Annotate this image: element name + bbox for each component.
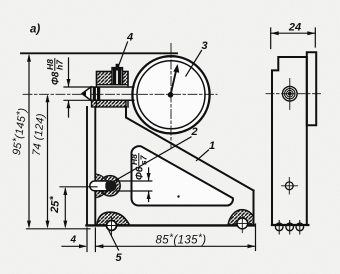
svg-text:Ф8: Ф8 <box>51 71 62 85</box>
dim 25 line <box>64 189 66 226</box>
svg-text:s7: s7 <box>139 154 149 165</box>
spindle clamp bands <box>93 87 96 100</box>
hub clamp body outline <box>97 72 129 108</box>
dim 4 extension lines <box>87 228 95 252</box>
side view bottom edge heavy <box>272 224 308 226</box>
gusset plate 1 hypotenuse <box>126 107 254 191</box>
dim 85 right extension <box>255 224 257 251</box>
dial indicator 3 outer circle <box>132 56 209 133</box>
lower boss (hole 5) hatched <box>97 212 130 225</box>
pin 2 (dark) <box>105 181 115 191</box>
spindle top edge <box>91 86 134 88</box>
dim 95 line <box>28 56 30 226</box>
dim 24 extension lines <box>271 28 316 49</box>
dim F8 line with arrows <box>68 58 70 117</box>
bottom extension line for 95/74/25 <box>27 228 91 230</box>
side bottom hole 2 <box>286 223 294 231</box>
25 extension line to hole axis <box>60 186 97 188</box>
hub bottom hatched strip <box>92 100 127 107</box>
svg-text:74 (124): 74 (124) <box>31 113 47 157</box>
dim F6 line with arrows <box>148 168 150 202</box>
svg-text:95*(145*): 95*(145*) <box>9 107 29 156</box>
dim 74 line <box>47 97 49 227</box>
side bottom hole 1 <box>275 223 283 231</box>
side screw vertical centerline <box>289 79 291 110</box>
dial horizontal centerline <box>23 93 217 95</box>
bottom right hole centerlines <box>241 215 243 232</box>
dim 24 line <box>271 32 316 34</box>
spindle cone tip <box>82 87 91 100</box>
top edge line <box>21 52 177 54</box>
bottom right hole <box>237 218 248 229</box>
svg-text:24: 24 <box>288 22 301 34</box>
side bottom hole 3 <box>296 223 304 231</box>
dim F8 extension lines <box>64 87 91 100</box>
dim F6 extension lines <box>116 181 152 191</box>
side view main plate outline <box>272 57 307 225</box>
svg-text:4: 4 <box>70 235 77 246</box>
svg-text:5: 5 <box>116 252 123 264</box>
needle <box>171 68 177 96</box>
bottom right boss hatched <box>228 210 254 225</box>
svg-text:H8: H8 <box>129 154 139 165</box>
svg-text:h7: h7 <box>55 59 65 70</box>
hole 2 slot <box>90 181 116 191</box>
svg-text:H8: H8 <box>45 59 55 70</box>
hole 5 circle <box>107 221 117 231</box>
side screw horizontal centerline <box>266 93 322 95</box>
dial inner circle <box>137 61 205 129</box>
side screw head circles <box>283 86 298 101</box>
base bottom edge <box>87 224 254 226</box>
upper boss (hole 2) hatched <box>95 174 120 198</box>
gusset right edge <box>253 191 255 226</box>
hub top-left hatched block <box>97 72 113 85</box>
side view gusset tab <box>307 52 316 125</box>
svg-text:а): а) <box>30 24 40 36</box>
hub top-right hatched block <box>123 72 129 85</box>
svg-text:2: 2 <box>191 126 198 138</box>
label F6 H8/s7 <box>129 154 149 181</box>
dim 4 line left with arrow <box>62 245 85 247</box>
lightening cutout <box>132 146 233 205</box>
clamp screw 4 head <box>112 68 123 85</box>
side middle hole <box>285 182 293 190</box>
small mark <box>177 195 179 197</box>
dial vertical centerline <box>170 44 172 148</box>
vertical plate right edge <box>94 107 96 225</box>
svg-text:1: 1 <box>209 140 215 152</box>
label F8 H8/h7 <box>45 59 65 86</box>
needle hub dot <box>168 92 174 98</box>
vertical plate left edge <box>86 107 88 225</box>
svg-text:25*: 25* <box>47 195 62 214</box>
svg-text:85*(135*): 85*(135*) <box>155 233 206 247</box>
dim 85 line <box>95 245 255 247</box>
hole 5 vertical centerline <box>104 217 120 237</box>
svg-text:3: 3 <box>202 40 208 52</box>
spindle bottom edge <box>91 99 134 101</box>
